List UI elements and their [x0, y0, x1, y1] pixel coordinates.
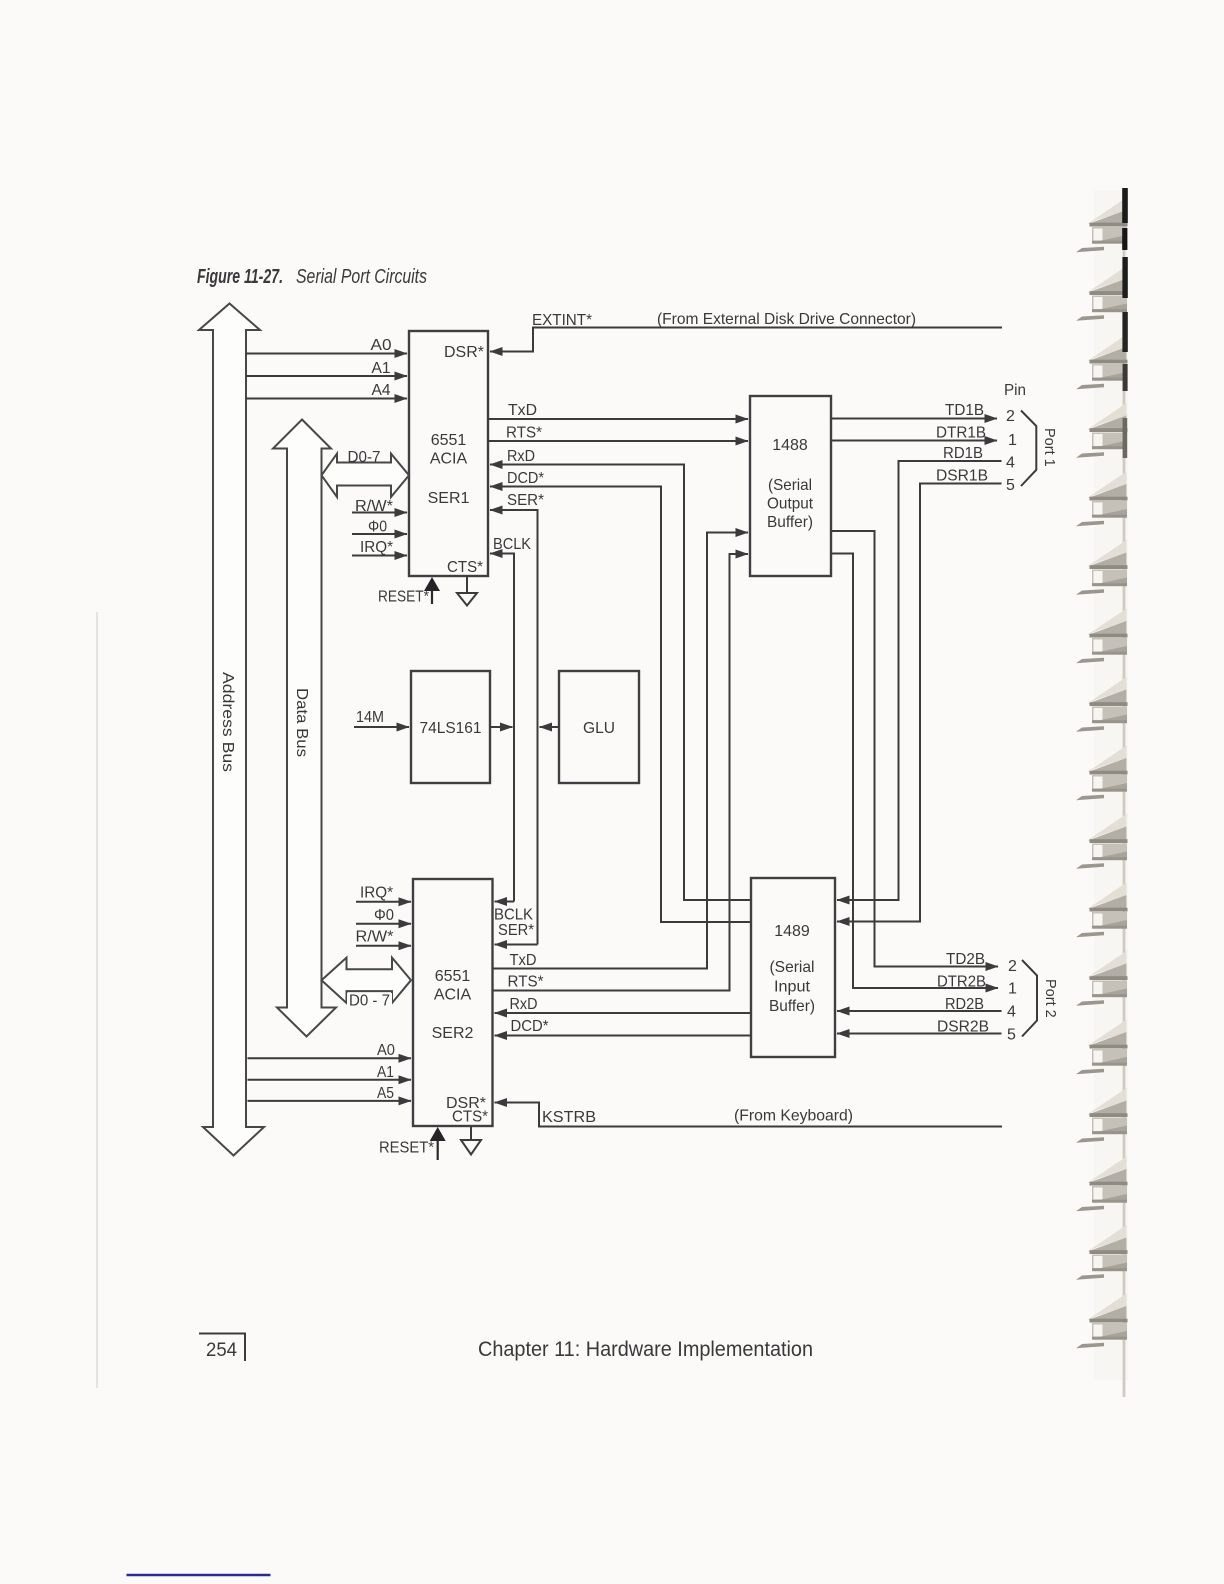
faint left gutter line: [96, 612, 98, 1388]
svg-text:RESET*: RESET*: [379, 1140, 434, 1157]
svg-text:A4: A4: [372, 382, 391, 399]
wire RESET* into SER1 (solid arrow): [431, 591, 433, 604]
wire IRQ* to SER1: [352, 555, 407, 557]
svg-text:4: 4: [1006, 455, 1015, 472]
svg-text:1: 1: [1008, 981, 1017, 998]
wire DSR1B port1 pin5 down to 1489: [837, 484, 1002, 922]
svg-text:1489: 1489: [774, 923, 810, 940]
bottom blue line: [127, 1574, 271, 1577]
wire RxD 1489 to SER2: [495, 1012, 752, 1014]
svg-text:DCD*: DCD*: [511, 1018, 549, 1035]
wire DSR2B port2 pin5 to 1489: [837, 1033, 1002, 1035]
buffer U4 1488 box: [750, 396, 831, 576]
svg-text:GLU: GLU: [583, 720, 615, 737]
wire DCD* 1489 to SER1: [490, 487, 751, 923]
wire TD2B 1488 down to port2 pin2: [831, 531, 998, 967]
wire KSTRB keyboard line to SER2 DSR*: [495, 1103, 1003, 1127]
svg-text:Pin: Pin: [1004, 382, 1026, 399]
wire A1 to SER2: [248, 1079, 412, 1081]
wire R/W* to SER2: [356, 945, 411, 947]
svg-text:CTS*: CTS*: [452, 1109, 488, 1126]
svg-text:RxD: RxD: [510, 996, 538, 1013]
op-amp U2 6551 ACIA SER2 box: [413, 879, 493, 1126]
svg-text:Φ0: Φ0: [368, 519, 387, 536]
wire A0 to SER1: [246, 353, 407, 355]
svg-text:RxD: RxD: [507, 448, 535, 465]
wire BCLK branch to SER2: [495, 901, 515, 903]
data bus (vertical double-headed outline arrow): [273, 420, 336, 1037]
svg-text:BCLK: BCLK: [494, 907, 533, 924]
ground (SER1 CTS*): [457, 576, 477, 606]
wire SER* vertical net GLU to SER1: [490, 510, 538, 945]
wire RxD 1489 to SER1: [490, 465, 751, 901]
address bus (vertical double-headed outline arrow): [199, 304, 264, 1156]
wire BCLK vertical net 74LS161 to SER1: [490, 554, 514, 902]
node D0-7 label (SER2): [347, 993, 392, 1006]
wire DTR2B 1488 down to port2 pin1: [831, 554, 998, 989]
svg-text:Address Bus: Address Bus: [219, 672, 236, 772]
svg-text:RESET*: RESET*: [378, 589, 429, 606]
svg-text:A1: A1: [377, 1064, 394, 1081]
wire TD1B 1488 to port1 pin2: [831, 418, 997, 420]
svg-text:D0 - 7: D0 - 7: [349, 993, 390, 1010]
svg-text:SER2: SER2: [432, 1025, 474, 1042]
svg-text:14M: 14M: [356, 709, 384, 726]
svg-text:Φ0: Φ0: [374, 907, 394, 924]
chip GLU box: [559, 671, 639, 783]
wire PHI0 to SER2: [356, 923, 411, 925]
svg-text:Buffer): Buffer): [767, 514, 813, 531]
svg-text:BCLK: BCLK: [493, 536, 531, 553]
svg-text:2: 2: [1008, 958, 1017, 975]
svg-text:4: 4: [1007, 1004, 1016, 1021]
svg-text:A0: A0: [377, 1042, 395, 1059]
wire A5 to SER2: [248, 1100, 412, 1102]
svg-text:(Serial: (Serial: [770, 959, 815, 976]
wire PHI0 to SER1: [352, 533, 407, 535]
svg-text:Port 1: Port 1: [1041, 428, 1057, 467]
wire RTS* SER2 up to 1488: [493, 554, 749, 991]
svg-text:SER*: SER*: [498, 922, 534, 939]
svg-text:D0-7: D0-7: [348, 449, 381, 466]
BOOKEDGE scan artifact column (decorative): [1076, 188, 1128, 1397]
svg-text:5: 5: [1006, 477, 1015, 494]
svg-text:1: 1: [1008, 432, 1017, 449]
svg-text:(Serial: (Serial: [768, 477, 812, 494]
wire RD2B port2 pin4 to 1489: [837, 1010, 1002, 1012]
svg-text:6551: 6551: [435, 968, 471, 985]
wire DCD* 1489 to SER2: [495, 1035, 752, 1037]
svg-text:Figure 11-27.Serial Port Circu: Figure 11-27.Serial Port Circuits: [197, 266, 427, 288]
svg-text:A0: A0: [371, 337, 392, 354]
bus D0-7 double arrow (SER2): [322, 958, 412, 1003]
svg-text:RTS*: RTS*: [508, 974, 544, 991]
svg-text:DTR2B: DTR2B: [937, 974, 986, 991]
bus D0-7 double arrow (SER1): [322, 454, 410, 497]
wire GLU output to SER* net: [540, 726, 560, 728]
wire RD1B port1 pin4 down to 1489: [837, 461, 1002, 900]
wire R/W* to SER1: [352, 512, 407, 514]
svg-text:TD1B: TD1B: [945, 402, 984, 419]
svg-text:KSTRB: KSTRB: [542, 1109, 596, 1126]
wire TxD SER2 up to 1488: [493, 533, 749, 969]
svg-text:Buffer): Buffer): [769, 998, 815, 1015]
wire 74LS161 output to BCLK net: [490, 726, 513, 728]
wire RTS* SER1 to 1488: [488, 440, 748, 442]
svg-text:DSR2B: DSR2B: [937, 1019, 989, 1036]
wire SER* branch to SER2: [495, 944, 538, 946]
svg-text:6551: 6551: [431, 432, 467, 449]
svg-text:5: 5: [1007, 1027, 1016, 1044]
svg-text:DSR1B: DSR1B: [936, 468, 988, 485]
svg-text:74LS161: 74LS161: [420, 720, 482, 737]
svg-text:CTS*: CTS*: [447, 559, 483, 576]
svg-text:ACIA: ACIA: [430, 451, 468, 468]
svg-text:RTS*: RTS*: [506, 425, 542, 442]
wire 14M into 74LS161: [354, 726, 409, 728]
svg-text:RD1B: RD1B: [943, 445, 983, 462]
wire TxD SER1 to 1488: [488, 418, 748, 420]
svg-text:A1: A1: [372, 360, 391, 377]
svg-text:DTR1B: DTR1B: [936, 425, 986, 442]
svg-text:R/W*: R/W*: [356, 929, 394, 946]
svg-text:TxD: TxD: [510, 952, 537, 969]
counter U3 74LS161 box: [411, 671, 490, 783]
svg-text:ACIA: ACIA: [434, 987, 472, 1004]
svg-text:Chapter 11: Hardware Implement: Chapter 11: Hardware Implementation: [478, 1337, 813, 1361]
svg-text:Output: Output: [767, 496, 814, 513]
svg-text:EXTINT*: EXTINT*: [532, 312, 592, 329]
svg-text:IRQ*: IRQ*: [360, 885, 393, 902]
svg-text:SER1: SER1: [428, 490, 470, 507]
svg-text:(From Keyboard): (From Keyboard): [734, 1108, 853, 1125]
svg-text:DCD*: DCD*: [507, 470, 544, 487]
buffer U5 1489 box: [751, 878, 835, 1057]
svg-text:SER*: SER*: [507, 492, 544, 509]
port 1 brace: [1021, 411, 1036, 487]
svg-text:TxD: TxD: [508, 402, 537, 419]
svg-text:DSR*: DSR*: [444, 344, 484, 361]
svg-text:TD2B: TD2B: [946, 951, 985, 968]
wire RESET* into SER2 (solid arrow): [437, 1141, 439, 1160]
wire A4 to SER1: [246, 398, 407, 400]
svg-text:IRQ*: IRQ*: [360, 539, 393, 556]
svg-text:Input: Input: [774, 979, 811, 996]
wire EXTINT* to SER1 DSR*: [490, 328, 1002, 352]
svg-text:RD2B: RD2B: [945, 996, 984, 1013]
wire A1 to SER1: [246, 375, 407, 377]
svg-text:A5: A5: [377, 1085, 394, 1102]
page number box: [199, 1334, 245, 1362]
wire DTR1B 1488 to port1 pin1: [831, 440, 997, 442]
svg-text:2: 2: [1006, 408, 1015, 425]
svg-text:Data Bus: Data Bus: [293, 688, 310, 757]
svg-text:R/W*: R/W*: [355, 498, 393, 515]
op-amp U1 6551 ACIA SER1 box: [409, 331, 488, 576]
svg-text:1488: 1488: [772, 437, 808, 454]
svg-text:Port 2: Port 2: [1042, 979, 1058, 1018]
svg-text:254: 254: [206, 1339, 237, 1361]
ground (SER2 CTS*): [461, 1126, 481, 1155]
port 2 brace: [1022, 960, 1037, 1037]
svg-text:(From External Disk Drive Conn: (From External Disk Drive Connector): [657, 311, 916, 328]
wire A0 to SER2: [248, 1057, 412, 1059]
wire IRQ* to SER2: [356, 901, 411, 903]
